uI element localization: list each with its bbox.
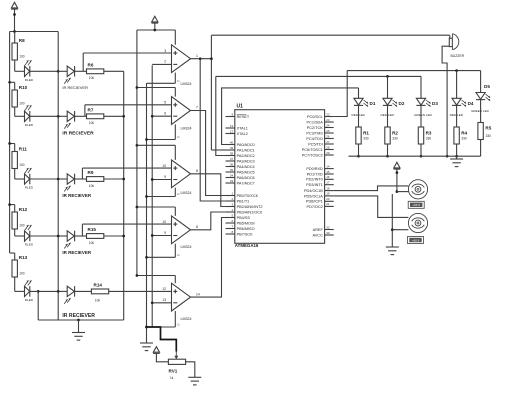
svg-text:8: 8: [196, 225, 198, 229]
svg-text:17: 17: [326, 181, 330, 185]
svg-text:U1: U1: [237, 103, 244, 109]
wire RV1 wiper to reference rail (thick): [148, 327, 177, 352]
svg-text:PA0/ADC0: PA0/ADC0: [237, 143, 255, 147]
U1 pin 26 PC4/TDO: [325, 138, 334, 140]
svg-text:LM324: LM324: [181, 245, 192, 249]
wire rail A drop to D4: [456, 71, 458, 99]
wire D5 to R5: [480, 100, 482, 123]
op-amp 4 - input wire: [152, 235, 171, 237]
svg-text:23: 23: [326, 118, 330, 122]
svg-text:100: 100: [19, 271, 25, 275]
svg-text:24: 24: [326, 123, 330, 127]
U1 pin 9 RESET: [226, 116, 235, 118]
svg-text:PA3/ADC3: PA3/ADC3: [237, 159, 255, 163]
resistor R14: [75, 290, 92, 292]
LED D5: [476, 93, 485, 100]
svg-text:25: 25: [326, 129, 330, 133]
wire sensor row 4: [30, 235, 58, 237]
svg-text:9: 9: [164, 231, 166, 235]
ground RV1: [188, 376, 201, 378]
wire sensor row 3: [30, 178, 58, 180]
svg-text:27: 27: [326, 140, 330, 144]
motor M1 display +88.8: [408, 201, 424, 208]
svg-text:32: 32: [326, 225, 330, 229]
wire sensor common rail x58: [57, 32, 59, 321]
svg-text:RLED: RLED: [25, 78, 34, 82]
power VCC arrow motors: [394, 162, 400, 168]
LED D1: [354, 98, 363, 105]
U1 pin 1 PB0/T0/XCK: [226, 195, 235, 197]
U1 pin 14 PD0/RXD: [325, 168, 334, 170]
resistor R9: [75, 178, 87, 180]
svg-text:PD3/INT1: PD3/INT1: [306, 183, 323, 187]
svg-text:20: 20: [326, 197, 330, 201]
LED D2: [383, 98, 392, 105]
motor M2 display +88.8: [408, 237, 424, 244]
svg-text:34: 34: [230, 173, 234, 177]
U1 pin 5 PB4/SS: [226, 217, 235, 219]
svg-text:38: 38: [230, 151, 234, 155]
wire D1 to R1: [358, 105, 360, 127]
wire motor supply stem: [396, 169, 398, 192]
LED D3: [416, 98, 425, 105]
svg-text:PA6/ADC6: PA6/ADC6: [237, 176, 255, 180]
ir receiver photodiode row 1: [67, 66, 74, 76]
svg-text:R1: R1: [363, 131, 369, 136]
svg-text:1: 1: [196, 54, 198, 58]
op-amp U2:B LM324 #2: [172, 97, 191, 125]
U1 pin 37 PA3/ADC3: [226, 160, 235, 162]
U1 pin 16 PD2/INT0: [325, 178, 334, 180]
svg-text:37: 37: [230, 157, 234, 161]
svg-text:BUZZER: BUZZER: [451, 54, 465, 58]
wire V- rail x146.5: [146, 83, 148, 343]
wire row 5 to op-amp 5 + input: [109, 290, 172, 292]
svg-text:2: 2: [164, 60, 166, 64]
wire left supply rail: [9, 32, 11, 254]
svg-text:PA7/ADC7: PA7/ADC7: [237, 181, 255, 185]
svg-text:R7: R7: [88, 108, 94, 113]
svg-text:10: 10: [162, 220, 166, 224]
U1 pin 20 PD6/ICP1: [325, 200, 334, 202]
U1 pin 23 PC1/SDA: [325, 121, 334, 123]
U1 pin 29 PC7/TOSC2: [325, 154, 334, 156]
U1 pin 15 PD1/TXD: [325, 173, 334, 175]
ir receiver photodiode row 2: [67, 111, 74, 121]
svg-text:PB0/T0/XCK: PB0/T0/XCK: [237, 194, 259, 198]
svg-text:PA2/ADC2: PA2/ADC2: [237, 154, 255, 158]
svg-text:R10: R10: [19, 85, 28, 90]
svg-text:R6: R6: [88, 63, 94, 68]
svg-text:R15: R15: [88, 227, 97, 232]
ground LED rail: [456, 156, 458, 159]
U1 pin 12 XTAL2: [226, 133, 235, 135]
svg-text:19: 19: [326, 192, 330, 196]
svg-text:R12: R12: [19, 207, 28, 212]
wire V+ rail x136.9: [136, 30, 138, 276]
wire drop to D1: [358, 88, 360, 98]
ground motors: [386, 246, 399, 248]
op-amp U2:D LM324 #4: [172, 216, 191, 244]
svg-text:PC5/TDI: PC5/TDI: [308, 142, 323, 146]
svg-text:15: 15: [326, 170, 330, 174]
svg-text:RLED: RLED: [25, 243, 34, 247]
U1 pin 24 PC2/TCK: [325, 127, 334, 129]
op-amp 5 - input wire: [152, 302, 171, 304]
U1 pin 4 PB3/AIN1/OC0: [226, 211, 235, 213]
wire D4 to R4: [456, 105, 458, 127]
svg-text:28: 28: [326, 145, 330, 149]
svg-text:8: 8: [196, 169, 198, 173]
svg-text:LM324: LM324: [181, 317, 192, 321]
svg-text:39: 39: [230, 146, 234, 150]
ir receiver photodiode row 3: [67, 174, 74, 184]
wire RV1 left to VCC: [156, 354, 168, 362]
U1 pin 28 PC6/TOSC1: [325, 149, 334, 151]
wire buzzer riser and PA1 feed: [210, 35, 212, 150]
svg-text:100: 100: [19, 54, 25, 58]
op-amp U2:C LM324 #3: [172, 160, 191, 188]
svg-text:D4: D4: [468, 101, 474, 106]
svg-text:PB7/SCK: PB7/SCK: [237, 232, 254, 236]
wire sensor row 2: [30, 115, 58, 117]
svg-text:R5: R5: [485, 126, 491, 131]
svg-text:5: 5: [164, 101, 166, 105]
wire sensor row 1: [30, 70, 58, 72]
svg-text:R11: R11: [19, 147, 28, 152]
svg-text:IR RECIEVER: IR RECIEVER: [62, 131, 94, 137]
svg-text:PD5/OC1A: PD5/OC1A: [304, 194, 323, 198]
U1 pin 25 PC3/TMS: [325, 132, 334, 134]
svg-text:PC7/TOSC2: PC7/TOSC2: [302, 153, 323, 157]
resistor R10: [10, 81, 15, 83]
op-amp U2:A LM324 #1: [172, 45, 191, 73]
svg-text:R3: R3: [426, 131, 432, 136]
wire PD4 to motor 1: [334, 186, 409, 191]
wire PD5 to motor 2: [334, 196, 409, 218]
wire LED rail B: [216, 75, 421, 77]
ir LED D-R12 (RLED): [15, 235, 25, 237]
resistor R8: [14, 32, 16, 44]
resistor R12: [10, 204, 15, 206]
svg-text:PC2/TCK: PC2/TCK: [307, 126, 324, 130]
wire LED rail A: [347, 70, 480, 72]
node dot on VCC stem: [13, 13, 16, 16]
svg-text:14: 14: [196, 292, 200, 296]
U1 pin 18 PD4/OC1B: [325, 190, 334, 192]
svg-text:10: 10: [162, 164, 166, 168]
svg-text:100: 100: [19, 101, 25, 105]
U1 pin 13 XTAL1: [226, 127, 235, 129]
svg-text:IR RECIEVER: IR RECIEVER: [62, 313, 95, 319]
op-amp 2 - input wire: [152, 115, 171, 117]
svg-text:D2: D2: [399, 101, 405, 106]
resistor R1: [356, 127, 361, 144]
svg-text:PC6/TOSC1: PC6/TOSC1: [302, 148, 323, 152]
wire riser to op-amp 4 + input: [81, 224, 83, 236]
svg-text:18: 18: [326, 186, 330, 190]
svg-text:PB1/T1: PB1/T1: [237, 199, 250, 203]
svg-text:40: 40: [230, 140, 234, 144]
svg-text:330: 330: [392, 136, 398, 140]
resistor R13: [10, 252, 15, 254]
svg-text:1k: 1k: [170, 376, 174, 380]
svg-text:+88.8: +88.8: [412, 238, 420, 242]
svg-text:IR RECIEVER: IR RECIEVER: [62, 250, 92, 255]
resistor R6: [75, 70, 87, 72]
wire VCC to motor 1 lower pin: [397, 191, 409, 193]
wire rail B drop to D3: [420, 76, 422, 98]
svg-text:100: 100: [19, 163, 25, 167]
U1 pin 40 PA0/ADC0: [226, 144, 235, 146]
op-amp 2 V- pin: [174, 124, 176, 139]
op-amp 4 V- pin: [174, 244, 176, 258]
ground sensor block: [77, 319, 80, 322]
ir LED D-R11 (RLED): [15, 178, 25, 180]
op-amp 4 V+ pin: [174, 207, 176, 216]
LED D4: [452, 98, 461, 105]
op-amp 2 V+ pin: [174, 88, 176, 97]
svg-text:LM324: LM324: [181, 191, 192, 195]
svg-text:AREF: AREF: [313, 228, 324, 232]
U1 pin 2 PB1/T1: [226, 200, 235, 202]
svg-text:12: 12: [162, 287, 166, 291]
op-amp 3 V- pin: [174, 188, 176, 197]
svg-text:33: 33: [230, 179, 234, 183]
svg-text:AVCC: AVCC: [313, 233, 324, 237]
svg-text:IR RECIEVER: IR RECIEVER: [62, 85, 88, 90]
power VCC arrow top-left: [11, 2, 17, 8]
wire riser to op-amp 1 + input: [82, 53, 84, 71]
svg-text:PD2/INT0: PD2/INT0: [306, 178, 323, 182]
wire op-amp2 output to PB0: [191, 111, 226, 196]
wire op1 to PB1: [200, 59, 225, 201]
svg-text:330: 330: [363, 136, 369, 140]
svg-text:330: 330: [461, 136, 467, 140]
U1 pin 34 PA6/ADC6: [226, 177, 235, 179]
U1 pin 39 PA1/ADC1: [226, 149, 235, 151]
U1 pin 38 PA2/ADC2: [226, 155, 235, 157]
svg-text:XTAL1: XTAL1: [237, 126, 248, 130]
svg-text:330: 330: [426, 136, 432, 140]
resistor R7: [75, 115, 87, 117]
svg-text:GREEN LED: GREEN LED: [414, 113, 433, 117]
motor M1: [408, 180, 427, 199]
ir receiver photodiode row 4: [67, 231, 74, 241]
svg-text:D3: D3: [432, 101, 438, 106]
resistor R2: [385, 127, 390, 144]
U1 pin 27 PC5/TDI: [325, 143, 334, 145]
svg-text:100: 100: [19, 223, 25, 227]
wire D2 to R2: [387, 105, 389, 127]
resistor R5: [478, 123, 483, 140]
U1 pin 6 PB5/MOSI: [226, 222, 235, 224]
wire rail A drop to D5: [480, 71, 482, 93]
U1 pin 32 AREF: [325, 229, 334, 231]
svg-text:PC1/SDA: PC1/SDA: [307, 120, 324, 124]
wire op-amp4 output to PB3: [191, 212, 226, 230]
svg-text:PC4/TDO: PC4/TDO: [306, 137, 323, 141]
svg-text:29: 29: [326, 151, 330, 155]
U1 pin 7 PB6/MISO: [226, 228, 235, 230]
svg-text:PB6/MISO: PB6/MISO: [237, 227, 255, 231]
svg-text:+88.8: +88.8: [412, 203, 420, 207]
svg-text:RLED: RLED: [25, 298, 34, 302]
svg-text:XTAL2: XTAL2: [237, 132, 248, 136]
resistor R3: [418, 127, 423, 144]
ir LED D-R8 (RLED): [15, 70, 25, 72]
svg-text:PD0/RXD: PD0/RXD: [306, 167, 323, 171]
U1 pin 3 PB2/AIN0/INT2: [226, 206, 235, 208]
op-amp 3 V+ pin: [174, 145, 176, 160]
U1 pin 8 PB7/SCK: [226, 233, 235, 235]
svg-text:10k: 10k: [89, 76, 95, 80]
svg-text:6: 6: [164, 112, 166, 116]
svg-text:R13: R13: [19, 255, 28, 260]
microcontroller U1 ATMEGA16: [235, 110, 325, 244]
wire buzzer feed top: [211, 34, 449, 36]
svg-text:PB2/AIN0/INT2: PB2/AIN0/INT2: [237, 205, 263, 209]
svg-text:PD6/ICP1: PD6/ICP1: [306, 200, 323, 204]
svg-text:330: 330: [486, 134, 492, 138]
svg-text:IR RECIEVER: IR RECIEVER: [62, 193, 92, 198]
svg-text:3: 3: [164, 49, 166, 53]
wire riser to op-amp 3 + input: [81, 168, 83, 179]
svg-text:9: 9: [164, 175, 166, 179]
wire pulldown rail x123.7: [123, 71, 125, 320]
op-amp 3 - input wire: [152, 179, 171, 181]
op-amp 5 V+ pin: [174, 276, 176, 284]
wire PA2 to LED rail B: [216, 76, 226, 155]
svg-text:35: 35: [230, 168, 234, 172]
wire sensor row 5: [30, 290, 58, 292]
svg-text:D1: D1: [370, 101, 376, 106]
wire D3 to R3: [420, 105, 422, 127]
op-amp 1 V+ pin: [174, 30, 176, 45]
potentiometer RV1: [175, 352, 177, 358]
svg-text:PC0/SCL: PC0/SCL: [307, 115, 323, 119]
U1 pin 35 PA5/ADC5: [226, 171, 235, 173]
svg-text:10k: 10k: [89, 184, 95, 188]
svg-text:PC3/TMS: PC3/TMS: [306, 131, 323, 135]
ir receiver photodiode row 5: [67, 286, 74, 296]
wire stem to motor 2 lower pin: [392, 229, 408, 231]
svg-text:30: 30: [326, 231, 330, 235]
svg-text:21: 21: [326, 202, 330, 206]
U1 pin 36 PA4/ADC4: [226, 166, 235, 168]
U1 pin 33 PA7/ADC7: [226, 182, 235, 184]
svg-text:26: 26: [326, 134, 330, 138]
svg-text:16: 16: [326, 175, 330, 179]
op-amp U3:A LM324 #5: [172, 283, 191, 311]
power VCC arrow op-amp column: [152, 16, 158, 22]
svg-text:R9: R9: [88, 170, 94, 175]
svg-text:14: 14: [326, 164, 330, 168]
U1 pin 30 AVCC: [325, 234, 334, 236]
svg-text:10k: 10k: [89, 121, 95, 125]
op-amp 1 - input wire: [152, 63, 171, 65]
wire top horizontal to sensor rail: [10, 31, 59, 33]
svg-text:7: 7: [196, 106, 198, 110]
svg-text:PD7/OC2: PD7/OC2: [307, 205, 323, 209]
svg-text:R8: R8: [19, 38, 25, 43]
ir LED D-R13 (RLED): [15, 290, 25, 292]
svg-text:10k: 10k: [89, 241, 95, 245]
wire op-amp5 output to PB4: [191, 218, 226, 298]
svg-text:PB4/SS: PB4/SS: [237, 216, 251, 220]
svg-text:PD4/OC1B: PD4/OC1B: [304, 189, 323, 193]
op-amp 1 V- pin: [174, 73, 176, 84]
resistor R11: [10, 143, 15, 145]
wire PA0 to D1 feed: [222, 88, 359, 145]
wire bottom ground bus: [38, 319, 124, 321]
svg-text:PA4/ADC4: PA4/ADC4: [237, 165, 255, 169]
svg-text:10k: 10k: [95, 298, 101, 302]
svg-text:13: 13: [230, 124, 234, 128]
U1 pin 21 PD7/OC2: [325, 205, 334, 207]
svg-text:LM324: LM324: [181, 82, 192, 86]
svg-text:R2: R2: [392, 131, 398, 136]
svg-text:36: 36: [230, 162, 234, 166]
wire PC0 to LED rail A: [334, 71, 348, 117]
resistor R4: [454, 127, 459, 144]
wire RV1 right to ground: [186, 362, 195, 378]
wire op-amp3 output to PB2: [191, 174, 226, 207]
wire LED bottom rail: [349, 155, 481, 157]
ground op-amp V- rail: [140, 342, 153, 344]
svg-text:R4: R4: [461, 131, 467, 136]
wire op-amp1 output: [191, 58, 212, 60]
U1 pin 22 PC0/SCL: [325, 116, 334, 118]
wire buzzer to ground rail: [442, 46, 449, 156]
svg-text:PA5/ADC5: PA5/ADC5: [237, 170, 255, 174]
U1 pin 17 PD3/INT1: [325, 184, 334, 186]
wire motor ground drop: [391, 194, 393, 247]
svg-text:RESET: RESET: [237, 115, 250, 119]
wire riser to op-amp 2 + input: [84, 105, 86, 117]
svg-text:PB3/AIN1/OC0: PB3/AIN1/OC0: [237, 210, 263, 214]
motor M2: [408, 213, 427, 232]
svg-text:PA1/ADC1: PA1/ADC1: [237, 148, 255, 152]
resistor R15: [75, 235, 87, 237]
buzzer BUZZER: [449, 38, 452, 46]
svg-text:22: 22: [326, 112, 330, 116]
svg-text:RLED: RLED: [25, 123, 34, 127]
wire rail B drop to D2: [386, 75, 389, 78]
svg-text:R14: R14: [94, 283, 103, 288]
svg-text:PB5/MOSI: PB5/MOSI: [237, 221, 255, 225]
wire R13 LED drop: [37, 291, 39, 320]
svg-text:13: 13: [162, 298, 166, 302]
svg-text:ATMEGA16: ATMEGA16: [235, 243, 259, 248]
svg-text:PD1/TXD: PD1/TXD: [307, 172, 323, 176]
svg-text:RV1: RV1: [169, 369, 178, 374]
svg-text:12: 12: [230, 129, 234, 133]
U1 pin 19 PD5/OC1A: [325, 195, 334, 197]
wire op-amp V+ top: [137, 29, 175, 31]
svg-text:LM324: LM324: [181, 127, 192, 131]
ir LED D-R10 (RLED): [15, 115, 25, 117]
power VCC arrow RV1: [153, 347, 159, 353]
svg-text:RLED: RLED: [25, 186, 34, 190]
op-amp 5 V- pin: [174, 311, 176, 327]
wire reference rail x152.2 from RV1 wiper: [151, 65, 153, 327]
svg-text:D5: D5: [484, 84, 490, 89]
